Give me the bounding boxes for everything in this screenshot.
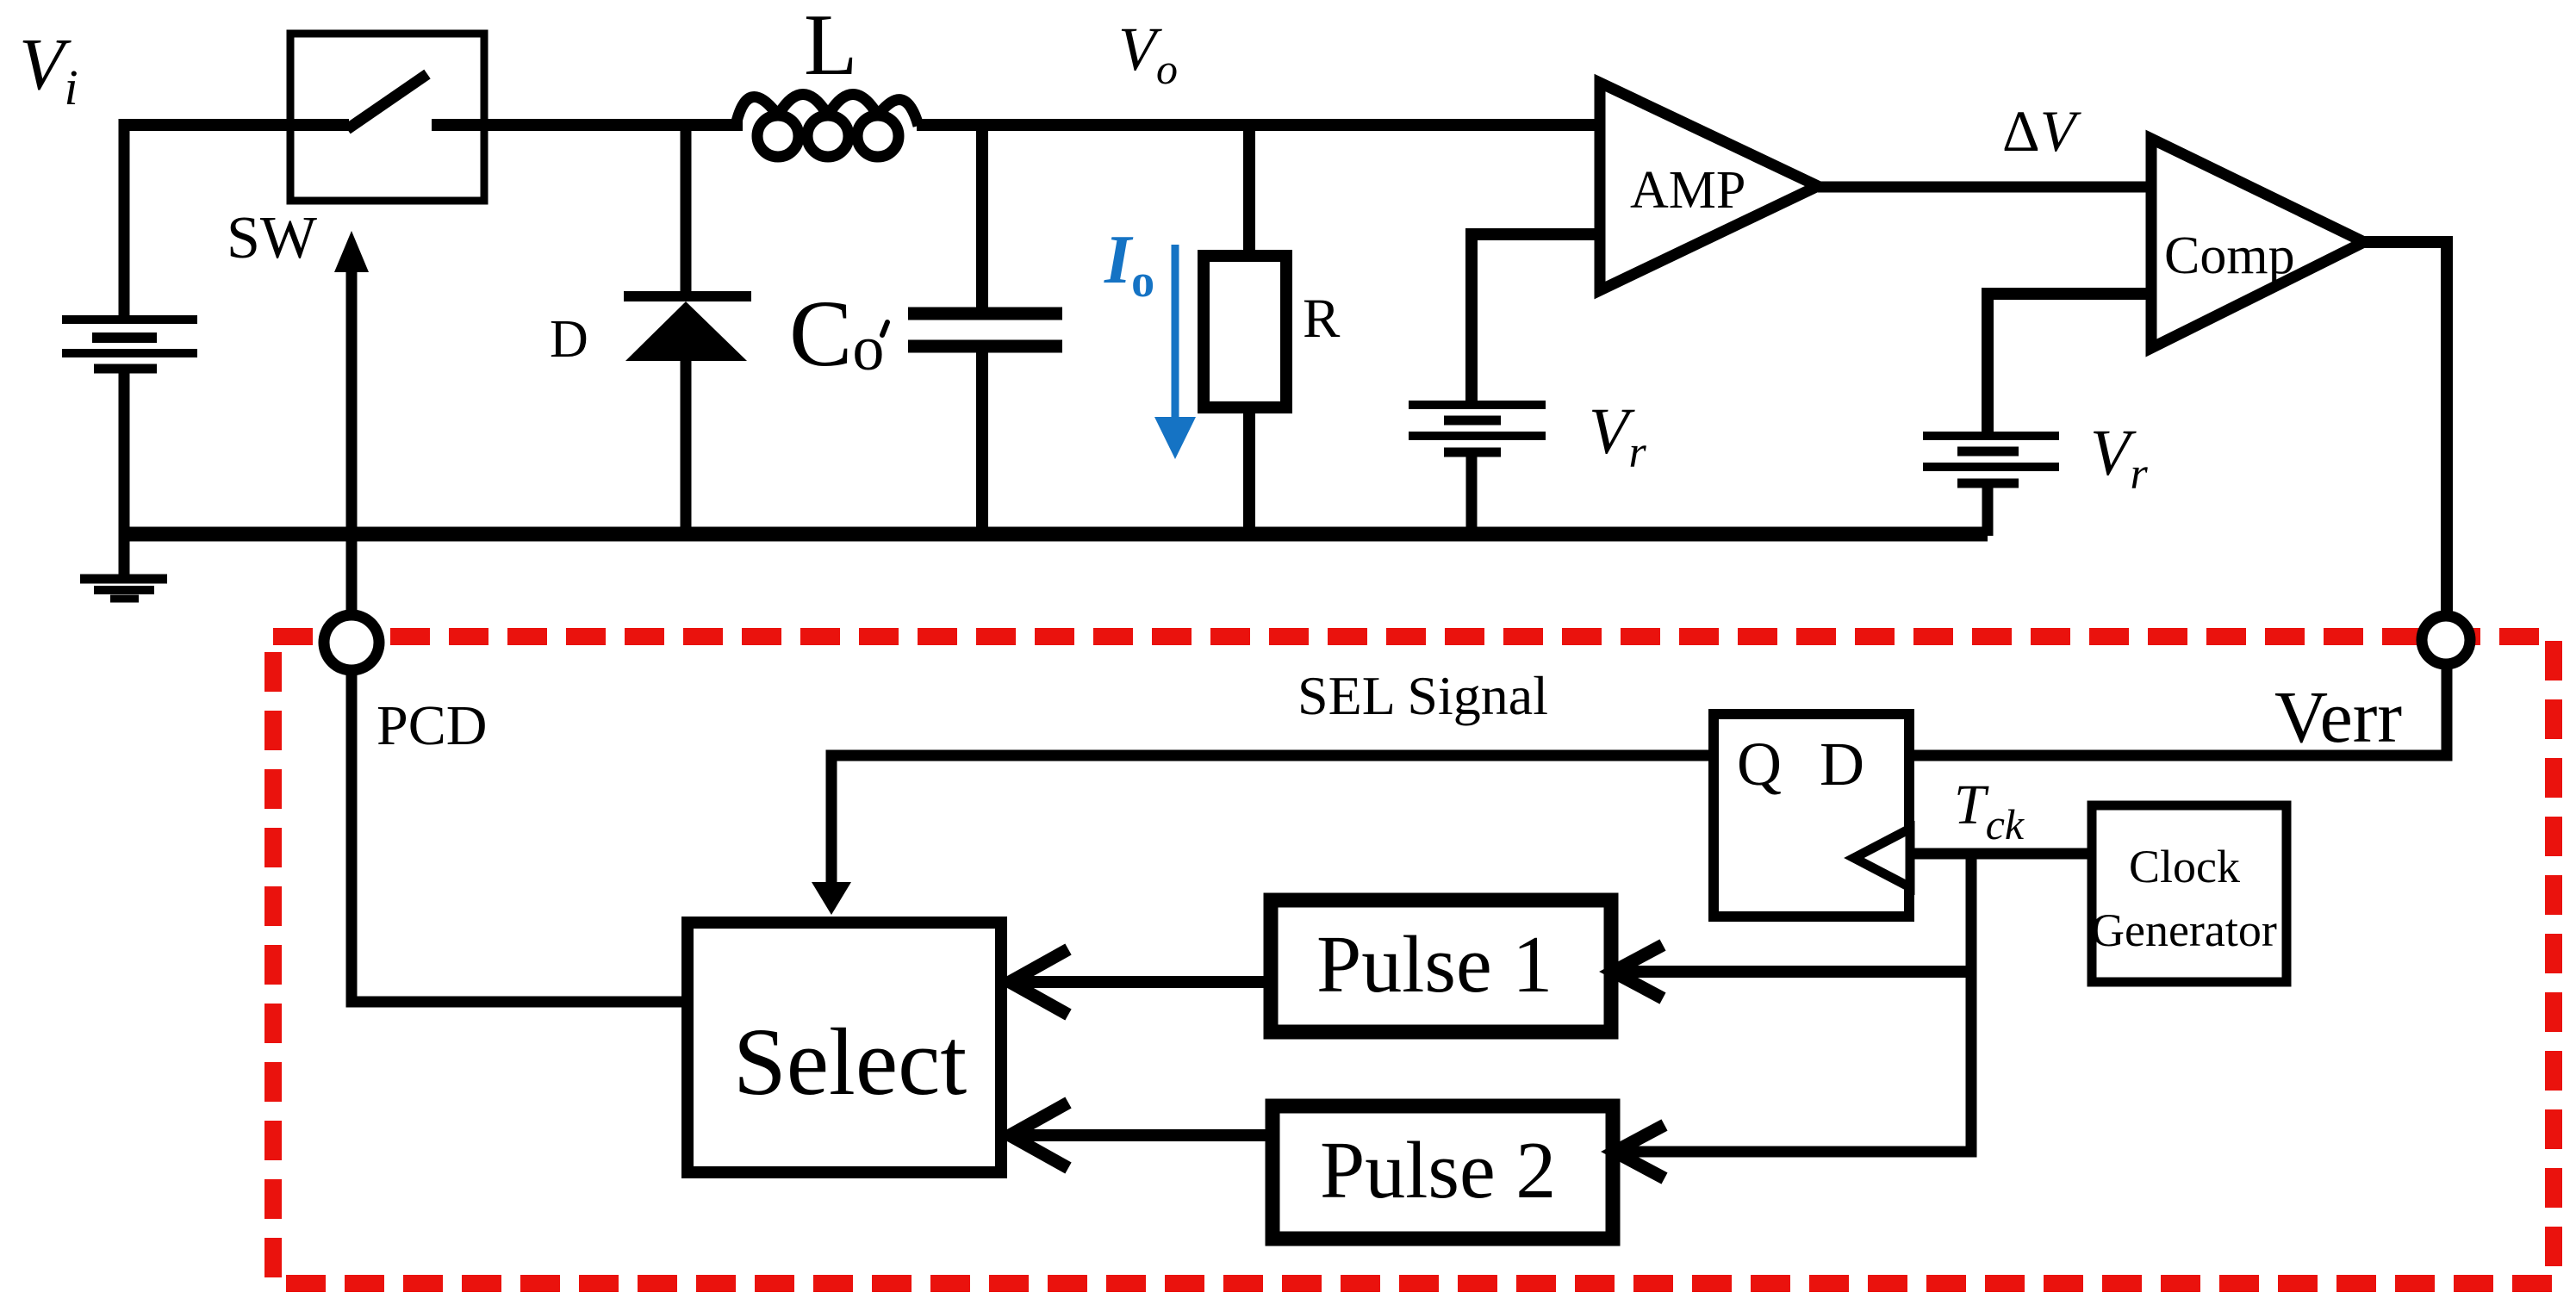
svg-text:Generator: Generator [2091,904,2277,956]
wire battery to bottom rail [119,370,130,536]
svg-text:Pulse 2: Pulse 2 [1320,1126,1556,1215]
wire Comp lower input [1988,294,2151,432]
ground [80,534,167,599]
pulse generator Pulse 1 [1271,900,1611,1032]
wire clock Tck to flip-flop [1914,848,2088,860]
battery Vr2 [1923,417,2148,536]
svg-text:L: L [804,0,857,94]
wire SEL signal Q to Select (arrow down) [831,755,1708,887]
switch SW [227,34,484,271]
svg-text:SEL Signal: SEL Signal [1297,665,1548,726]
SEL controller boundary (red dashed box) [273,637,2554,1283]
op-amp AMP [1600,83,1818,290]
svg-text:D: D [550,310,588,369]
pulse generator Pulse 2 [1272,1106,1613,1239]
wire Pulse1 to Select (chevron arrow) [1021,976,1264,988]
wire inductor to AMP (node Vo rail) [917,119,1602,131]
capacitor Co [789,119,1062,536]
diode D [550,119,751,536]
resistor R [1204,119,1341,536]
node Verr circle [2422,616,2470,664]
svg-text:R: R [1303,288,1341,350]
flip-flop QD [1714,714,1910,917]
wire PCD to Select [352,669,681,1002]
battery Vi [62,320,197,369]
svg-text:Select: Select [733,1010,967,1115]
wire Comp output to node Verr [2364,242,2447,613]
svg-text:PCD: PCD [376,694,487,757]
select block [688,923,1001,1172]
wire AMP output (ΔV) [1818,182,2151,193]
svg-text:D: D [1820,730,1864,799]
wire Pulse2 to Select (chevron arrow) [1021,1129,1266,1141]
svg-text:Pulse 1: Pulse 1 [1316,920,1552,1010]
svg-text:SW: SW [227,205,317,271]
bottom rail (ground net) [124,527,1988,542]
svg-text:AMP: AMP [1630,161,1745,220]
wire switch to inductor [432,119,743,131]
battery Vr1 [1409,395,1646,536]
wire Vi rail down to battery [119,119,130,318]
wire PCD to switch gate (arrow up) [346,269,358,613]
wire AMP lower input [1472,234,1600,403]
wire clock junction down to pulses [1628,854,1971,1152]
clock generator block [2091,805,2287,982]
svg-text:Verr: Verr [2274,675,2402,758]
svg-text:ΔV: ΔV [2002,98,2082,164]
inductor L [735,0,918,157]
wire to Pulse1 (chevron arrow) [1627,966,1971,978]
current Io arrow (blue) [1104,222,1196,459]
wire Vi rail to switch [121,119,349,131]
svg-text:Clock: Clock [2129,841,2240,892]
wire Verr to D input of flip-flop [1914,668,2447,755]
node PCD circle [324,615,379,670]
svg-text:Q: Q [1737,730,1782,799]
wire to Pulse2 (chevron arrow) [1615,1125,1664,1178]
comparator Comp [2151,139,2364,348]
svg-text:Comp: Comp [2164,227,2295,285]
